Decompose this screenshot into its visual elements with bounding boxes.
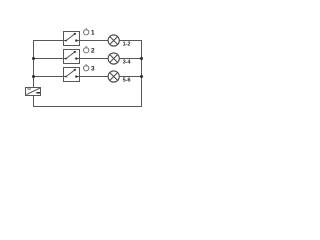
node left bus row2 (32, 57, 35, 60)
svg-text:3-4: 3-4 (123, 59, 132, 65)
switch S2 (64, 50, 80, 64)
svg-text:3: 3 (91, 66, 95, 73)
wire row2 lamp-to-bus (119, 58, 142, 60)
power icon 3 (84, 64, 89, 71)
wire row1 lamp-to-bus (119, 40, 142, 42)
switch S3 (64, 68, 80, 82)
wire left bus (33, 40, 35, 88)
svg-text:5-6: 5-6 (123, 77, 131, 83)
wire converter bottom stub (33, 96, 35, 108)
wire row3 bus-to-switch (33, 76, 64, 78)
lamp L1 (108, 35, 119, 46)
switch S1 (64, 32, 80, 46)
converter U1 (26, 88, 41, 96)
svg-text:1: 1 (91, 30, 95, 37)
svg-text:2: 2 (91, 48, 95, 55)
svg-text:1-2: 1-2 (123, 41, 131, 47)
wire row2 bus-to-switch (33, 58, 64, 60)
wire row3 lamp-to-bus (119, 76, 142, 78)
power icon 2 (84, 46, 89, 53)
lamp L2 (108, 53, 119, 64)
node left bus row3 (32, 75, 35, 78)
wire row3 switch-to-lamp (80, 76, 109, 78)
node right bus row3 (140, 75, 143, 78)
wire bottom return (33, 106, 142, 108)
wire row2 switch-to-lamp (80, 58, 109, 60)
wire right bus (141, 40, 143, 107)
node right bus row2 (140, 57, 143, 60)
lamp L3 (108, 71, 119, 82)
wire row1 bus-to-switch (33, 40, 64, 42)
power icon 1 (84, 28, 89, 35)
wire row1 switch-to-lamp (80, 40, 109, 42)
